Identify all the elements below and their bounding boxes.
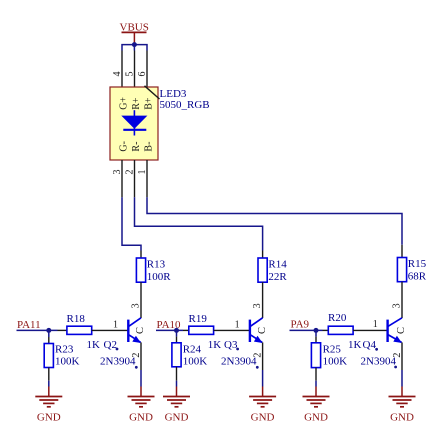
wire pin3 lead — [121, 160, 123, 197]
svg-text:C: C — [396, 327, 407, 334]
resistor R19 — [183, 313, 251, 351]
wire pin2 to R14 — [135, 197, 263, 250]
svg-text:GND: GND — [37, 412, 61, 424]
ground GND (Q3) — [249, 387, 276, 424]
svg-text:C: C — [257, 327, 268, 334]
svg-text:100R: 100R — [147, 271, 172, 283]
svg-text:Q3: Q3 — [224, 339, 238, 351]
resistor R25 — [311, 337, 347, 387]
svg-text:PA11: PA11 — [17, 319, 41, 331]
svg-text:R18: R18 — [67, 313, 86, 325]
svg-text:2N3904: 2N3904 — [221, 355, 257, 367]
svg-text:GND: GND — [129, 412, 153, 424]
svg-text:R23: R23 — [55, 343, 74, 355]
node PA9 junction — [314, 328, 319, 333]
svg-text:2N3904: 2N3904 — [100, 355, 136, 367]
svg-text:R19: R19 — [189, 313, 208, 325]
node PA10 junction — [174, 328, 179, 333]
wire pin6 lead — [146, 51, 148, 88]
svg-text:3: 3 — [252, 303, 263, 308]
svg-text:3: 3 — [392, 303, 403, 308]
svg-text:5050_RGB: 5050_RGB — [160, 99, 210, 111]
power port VBUS — [120, 22, 149, 45]
svg-text:G-: G- — [119, 141, 130, 152]
svg-text:68R: 68R — [408, 271, 427, 283]
svg-text:2N3904: 2N3904 — [361, 355, 397, 367]
wire R24 branch — [176, 330, 178, 336]
resistor R20 — [323, 312, 389, 351]
wire pin1 lead — [146, 160, 148, 197]
resistor R13 — [136, 251, 171, 319]
LED3 leader line — [145, 86, 160, 99]
LED U: LED3 body — [110, 87, 158, 160]
svg-text:R24: R24 — [183, 343, 202, 355]
svg-text:GND: GND — [304, 412, 328, 424]
node PA11 junction — [46, 328, 51, 333]
resistor R23 — [44, 337, 79, 387]
svg-text:B+: B+ — [144, 97, 155, 110]
svg-text:GND: GND — [390, 412, 414, 424]
ground GND (Q2) — [128, 387, 155, 424]
svg-text:100K: 100K — [323, 355, 348, 367]
wire PA9 — [290, 329, 323, 331]
svg-text:100K: 100K — [183, 355, 208, 367]
svg-text:G+: G+ — [119, 97, 130, 110]
wire PA11 — [17, 329, 58, 331]
svg-text:PA9: PA9 — [291, 318, 310, 330]
svg-text:1K: 1K — [208, 339, 222, 351]
svg-text:R25: R25 — [323, 343, 342, 355]
svg-text:1: 1 — [373, 319, 378, 330]
resistor R24 — [172, 337, 207, 387]
svg-text:R15: R15 — [408, 258, 427, 270]
wire PA10 — [156, 329, 183, 331]
wire pin5 lead — [134, 51, 136, 88]
svg-text:1K: 1K — [348, 339, 362, 351]
svg-text:R-: R- — [131, 142, 142, 152]
svg-text:6: 6 — [137, 72, 148, 77]
svg-text:Q2: Q2 — [104, 339, 117, 351]
resistor R14 — [258, 251, 287, 319]
resistor R15 — [397, 245, 426, 318]
svg-text:2: 2 — [125, 170, 136, 175]
svg-text:R14: R14 — [268, 259, 287, 271]
svg-text:100K: 100K — [55, 355, 80, 367]
wire pin2 lead — [134, 160, 136, 197]
svg-text:3: 3 — [131, 303, 142, 308]
wire pin3 to R13 — [122, 197, 141, 250]
node VBUS junction — [132, 42, 137, 47]
svg-text:Q4: Q4 — [363, 339, 377, 351]
transistor Q3 — [221, 318, 268, 387]
LED symbol — [121, 110, 147, 135]
resistor R18 — [58, 313, 130, 351]
wire VBUS bus split — [121, 44, 147, 51]
transistor Q4 — [361, 318, 408, 387]
wire R25 branch — [315, 330, 317, 336]
wire R23 branch — [48, 330, 50, 337]
transistor Q2 — [100, 318, 146, 387]
svg-text:4: 4 — [112, 72, 123, 77]
svg-text:R+: R+ — [131, 97, 142, 110]
wire pin4 lead — [121, 51, 123, 88]
svg-text:22R: 22R — [268, 271, 287, 283]
wire pin1 to R15 — [147, 197, 402, 245]
svg-text:R13: R13 — [147, 259, 166, 271]
svg-text:5: 5 — [125, 72, 136, 77]
svg-text:B-: B- — [144, 142, 155, 152]
ground GND (Q4) — [389, 387, 416, 424]
ground GND (R25) — [303, 387, 330, 424]
ground GND (R24) — [163, 387, 190, 424]
svg-text:GND: GND — [165, 412, 189, 424]
svg-text:R20: R20 — [328, 312, 347, 324]
svg-text:C: C — [135, 327, 146, 334]
svg-text:1: 1 — [137, 170, 148, 175]
svg-text:1: 1 — [235, 320, 240, 331]
ground GND (R23) — [35, 387, 62, 424]
svg-text:1K: 1K — [87, 339, 101, 351]
svg-text:GND: GND — [251, 412, 275, 424]
svg-text:1: 1 — [113, 320, 118, 331]
svg-text:3: 3 — [112, 170, 123, 175]
